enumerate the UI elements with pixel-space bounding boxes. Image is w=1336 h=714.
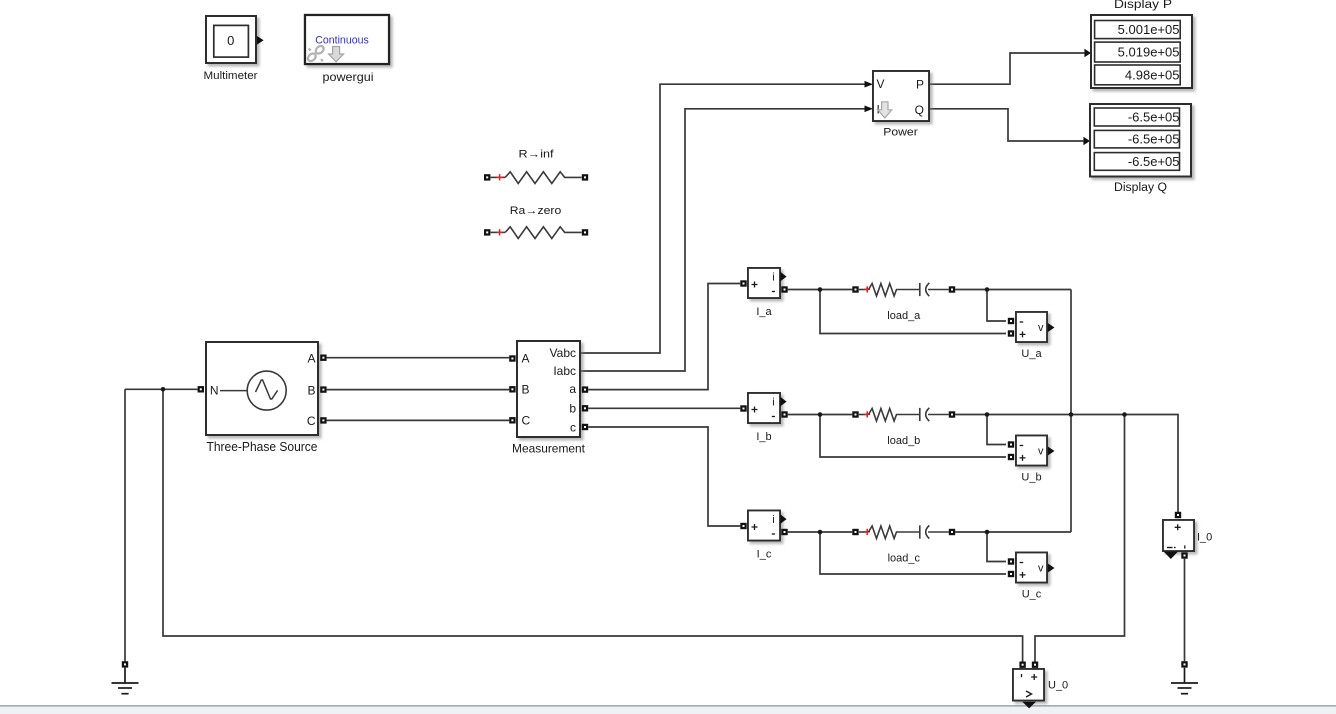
svg-text:U_c: U_c — [1022, 589, 1042, 601]
svg-text:Q: Q — [915, 103, 924, 117]
svg-text:Display Q: Display Q — [1114, 182, 1167, 194]
svg-text:Vabc: Vabc — [550, 346, 576, 360]
svg-text:-6.5e+05: -6.5e+05 — [1128, 154, 1180, 169]
svg-text:powergui: powergui — [323, 70, 374, 84]
svg-text:Ra→zero: Ra→zero — [510, 205, 562, 217]
svg-text:Continuous: Continuous — [315, 35, 369, 47]
svg-text:c: c — [570, 420, 576, 434]
svg-text:P: P — [916, 77, 924, 91]
svg-text:C: C — [307, 414, 316, 428]
svg-text:V: V — [877, 77, 885, 91]
svg-text:B: B — [522, 382, 530, 396]
svg-text:N: N — [210, 383, 219, 397]
svg-text:I_b: I_b — [756, 431, 771, 443]
svg-text:load_c: load_c — [888, 553, 921, 565]
svg-text:Iabc: Iabc — [553, 364, 576, 378]
svg-text:A: A — [307, 351, 315, 365]
svg-text:U_b: U_b — [1021, 472, 1041, 484]
svg-text:a: a — [569, 382, 576, 396]
svg-text:Multimeter: Multimeter — [204, 70, 258, 82]
svg-text:B: B — [307, 383, 315, 397]
svg-text:4.98e+05: 4.98e+05 — [1125, 67, 1180, 82]
svg-text:load_b: load_b — [887, 435, 920, 447]
svg-text:U_0: U_0 — [1048, 679, 1068, 691]
svg-text:Display P: Display P — [1114, 0, 1172, 11]
svg-text:I_c: I_c — [757, 549, 772, 561]
svg-text:b: b — [569, 401, 576, 415]
svg-text:-6.5e+05: -6.5e+05 — [1128, 110, 1180, 125]
svg-text:Three-Phase Source: Three-Phase Source — [207, 440, 318, 454]
svg-text:A: A — [522, 352, 530, 366]
svg-text:I_0: I_0 — [1197, 531, 1212, 543]
svg-text:load_a: load_a — [887, 310, 921, 322]
svg-text:I_a: I_a — [756, 306, 772, 318]
svg-text:C: C — [522, 413, 531, 427]
svg-text:U_a: U_a — [1021, 348, 1042, 360]
svg-text:Power: Power — [883, 127, 918, 139]
svg-text:5.001e+05: 5.001e+05 — [1118, 22, 1180, 37]
svg-text:0: 0 — [227, 33, 234, 48]
svg-text:R→inf: R→inf — [519, 149, 555, 161]
svg-text:5.019e+05: 5.019e+05 — [1118, 45, 1180, 60]
svg-text:-6.5e+05: -6.5e+05 — [1128, 132, 1180, 147]
svg-text:Measurement: Measurement — [512, 441, 586, 455]
